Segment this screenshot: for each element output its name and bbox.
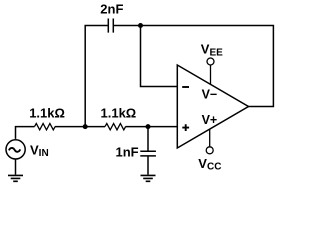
- resistor R1 1.1k zigzag: [35, 124, 56, 130]
- VCC supply terminal circle: [206, 147, 213, 154]
- capacitor C2 1nF plates: [140, 151, 156, 156]
- svg-text:V−: V−: [202, 88, 218, 102]
- svg-text:VCC: VCC: [198, 156, 221, 173]
- wire: C2 to ground: [147, 156, 149, 175]
- node A junction dot: [83, 124, 88, 129]
- VEE supply stub: [210, 65, 212, 84]
- op-amp plus input sign: [182, 124, 189, 131]
- wire: source to ground: [15, 159, 17, 175]
- VCC supply stub: [209, 129, 211, 146]
- svg-text:VEE: VEE: [201, 42, 223, 59]
- wire: C1 to feedback node, across top to right side: [114, 26, 273, 107]
- svg-text:1.1kΩ: 1.1kΩ: [29, 105, 65, 120]
- svg-text:2nF: 2nF: [100, 2, 123, 17]
- resistor R2 1.1k zigzag: [105, 124, 126, 130]
- svg-text:1nF: 1nF: [116, 144, 139, 159]
- wire: node A up to capacitor C1: [85, 26, 107, 127]
- wire: feedback node down to inverting input: [141, 26, 178, 87]
- feedback node dot: [138, 23, 143, 28]
- sine symbol inside source: [9, 148, 20, 152]
- svg-text:VIN: VIN: [30, 142, 49, 159]
- node B junction dot: [146, 124, 151, 129]
- voltage source VIN circle: [6, 140, 25, 159]
- ground G2 under C2: [141, 175, 156, 181]
- op-amp U1 triangle: [177, 65, 248, 148]
- ground G1 under source: [8, 175, 23, 181]
- op-amp minus input sign: [182, 86, 189, 88]
- capacitor C1 2nF plates: [108, 19, 113, 33]
- wire: R2 to node B to op-amp + input: [126, 126, 178, 128]
- wire: R1 to node A to R2: [55, 126, 105, 128]
- VEE supply terminal circle: [207, 58, 214, 65]
- svg-text:1.1kΩ: 1.1kΩ: [101, 105, 137, 120]
- wire: input from source to R1: [16, 127, 35, 139]
- wire: node B down to capacitor C2: [147, 127, 149, 151]
- svg-text:V+: V+: [202, 113, 218, 127]
